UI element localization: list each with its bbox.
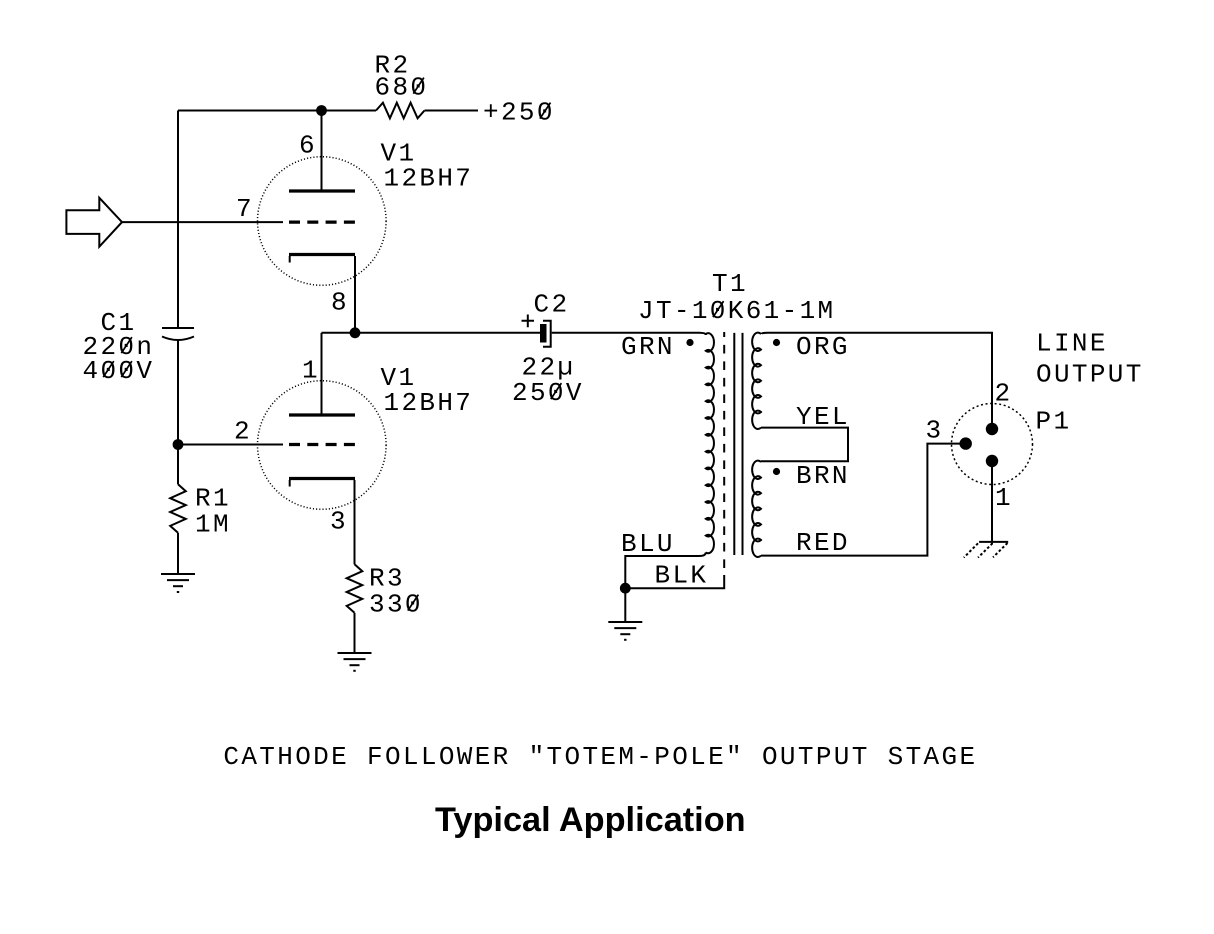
slashed-zero overlays (103, 78, 723, 611)
ground symbol below R3 (338, 653, 372, 671)
svg-text:1: 1 (995, 483, 1013, 513)
capacitor C2 (polarized) plus sign (522, 315, 535, 328)
wire: RED lead from secondary bottom to XLR pin3 (761, 444, 966, 556)
svg-text:BLU: BLU (621, 529, 675, 559)
capacitor C2 negative plate bracket (543, 321, 551, 347)
svg-text:400V: 400V (83, 356, 155, 386)
tube V1 lower envelope (258, 381, 387, 510)
svg-text:OUTPUT: OUTPUT (1036, 360, 1144, 390)
phase dot ORG side (773, 339, 780, 346)
BLK shield lead (625, 575, 724, 588)
input signal arrow (66, 198, 122, 247)
V1 upper cathode lead (pin 8) (354, 256, 356, 333)
svg-text:ORG: ORG (796, 332, 850, 362)
V1 upper plate bar (289, 189, 355, 192)
P1 pin 3 contact (960, 437, 972, 449)
V1 lower plate lead (pin 1) (321, 333, 323, 414)
svg-text:1M: 1M (195, 510, 231, 540)
svg-text:1: 1 (302, 356, 320, 386)
ground symbol transformer (608, 622, 642, 640)
svg-text:250V: 250V (512, 378, 584, 408)
wire: pin1 to chassis ground (991, 461, 993, 544)
capacitor C2 positive plate (540, 324, 547, 343)
node: junction of R2 rail and V1 plate lead (316, 105, 327, 116)
chassis ground symbol (979, 541, 1008, 543)
svg-text:C2: C2 (534, 290, 570, 320)
wire: left rail below C1 to grid node (177, 340, 179, 485)
transformer secondary upper winding (752, 333, 761, 429)
svg-text:3: 3 (330, 507, 348, 537)
svg-text:8: 8 (331, 288, 349, 318)
svg-text:6: 6 (299, 131, 317, 161)
svg-text:CATHODE FOLLOWER "TOTEM-POLE": CATHODE FOLLOWER "TOTEM-POLE" OUTPUT STA… (223, 742, 977, 772)
V1 lower plate bar (289, 413, 355, 416)
svg-text:Typical Application: Typical Application (435, 801, 746, 839)
svg-text:12BH7: 12BH7 (384, 388, 474, 418)
wire: C2 to transformer primary (552, 333, 706, 335)
transformer primary winding (706, 333, 714, 553)
wire: top rail from left rail to R2 (178, 110, 376, 112)
wire: cathode/plate junction to C2 (322, 332, 541, 334)
V1 upper grid (dashed) (289, 221, 355, 224)
svg-text:RED: RED (796, 528, 850, 558)
svg-text:680: 680 (375, 73, 429, 103)
phase dot BRN side (773, 468, 780, 475)
wire: grid lead of lower V1 (pin 2) (178, 444, 283, 446)
svg-text:GRN: GRN (621, 332, 675, 362)
V1 lower cathode bar with tick (289, 477, 355, 480)
resistor R1 (170, 484, 186, 533)
V1 upper plate lead (pin 6) (321, 111, 323, 190)
wire: R1 to ground (177, 533, 179, 574)
transformer secondary lower winding (752, 461, 761, 557)
wire: R2 to +250 (425, 110, 479, 112)
wire: R3 to ground (354, 613, 356, 653)
svg-text:JT-10K61-1M: JT-10K61-1M (638, 296, 835, 326)
transformer shield (dashed) (723, 332, 725, 576)
phase dot GRN side (686, 339, 693, 346)
P1 pin 2 contact (986, 423, 998, 435)
connector P1 shell (952, 404, 1033, 485)
svg-text:LINE: LINE (1036, 329, 1108, 359)
wire: ORG lead from secondary top to XLR pin2 (761, 333, 992, 429)
svg-text:YEL: YEL (796, 402, 850, 432)
tube V1 upper envelope (258, 157, 387, 286)
transformer core lines (734, 333, 742, 555)
svg-text:T1: T1 (712, 269, 748, 299)
svg-text:BRN: BRN (796, 461, 850, 491)
wire: BLU lead from primary bottom (625, 552, 706, 622)
P1 pin 1 contact (986, 455, 998, 467)
node: junction of C1, R1, V1 lower grid (173, 439, 184, 450)
svg-text:2: 2 (234, 417, 252, 447)
svg-text:12BH7: 12BH7 (384, 164, 474, 194)
svg-text:7: 7 (236, 194, 254, 224)
V1 lower grid (dashed) (289, 443, 355, 446)
V1 lower cathode lead (pin 3) (354, 480, 356, 564)
wire: left rail top segment (V1 plate node down to C1) (177, 111, 179, 329)
node: BLU/BLK ground junction (620, 583, 631, 594)
V1 upper cathode bar with tick (289, 253, 355, 256)
resistor R2 (376, 103, 425, 119)
wire: input to V1 upper grid (pin 7) (122, 221, 283, 223)
node: totem-pole output junction (350, 327, 361, 338)
svg-text:P1: P1 (1036, 407, 1072, 437)
ground symbol below R1 (161, 574, 195, 592)
resistor R3 (347, 564, 363, 613)
svg-text:3: 3 (926, 416, 944, 446)
wire: YEL center tap (761, 428, 848, 462)
svg-text:2: 2 (995, 379, 1013, 409)
svg-text:BLK: BLK (655, 560, 709, 590)
svg-text:330: 330 (369, 590, 423, 620)
capacitor C1 (162, 327, 194, 329)
